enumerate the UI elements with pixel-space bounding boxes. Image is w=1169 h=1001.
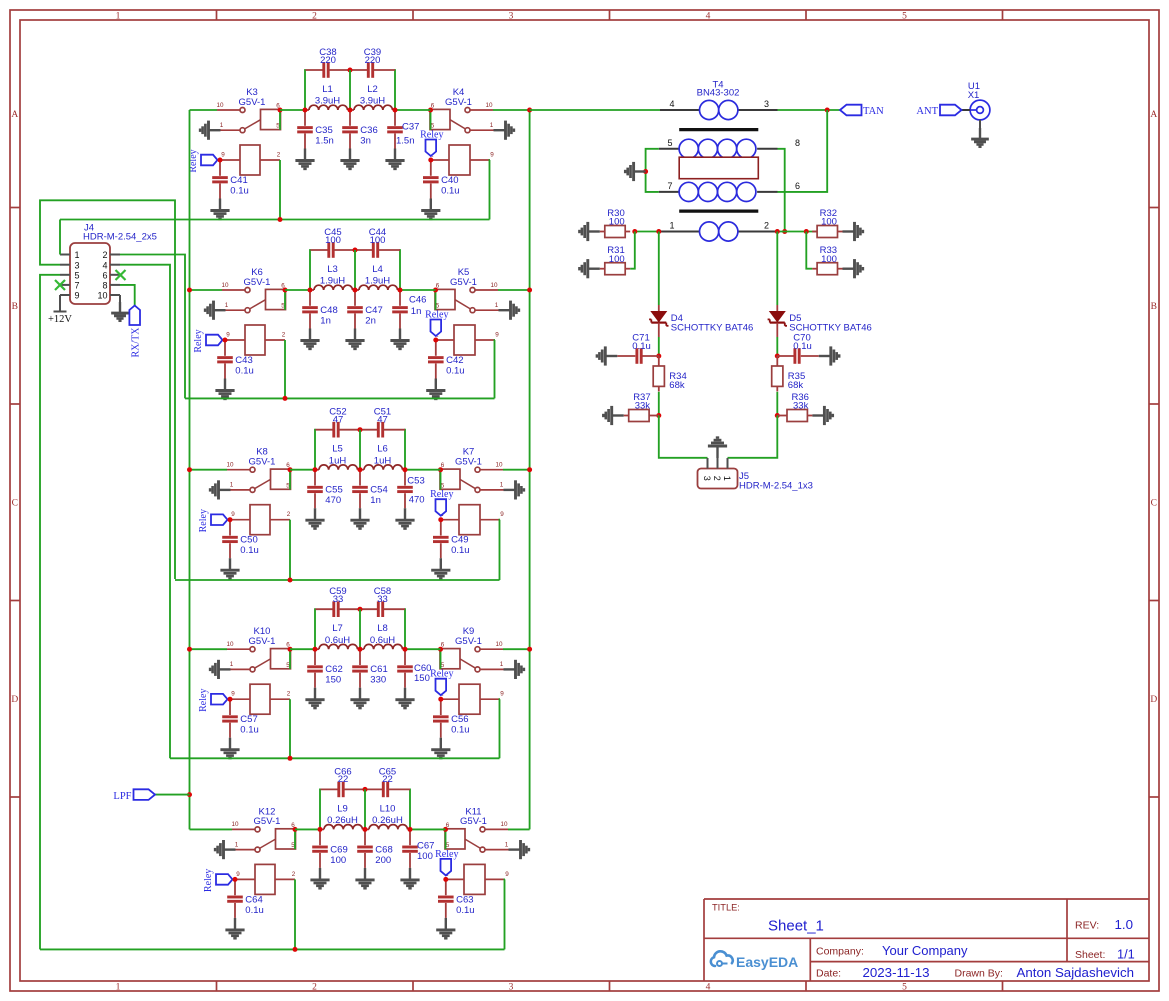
svg-text:1n: 1n bbox=[411, 306, 422, 317]
node R36 bbox=[775, 413, 780, 418]
svg-text:2: 2 bbox=[764, 221, 769, 231]
node R30/R31 bbox=[632, 229, 637, 234]
capacitor C48 bbox=[302, 290, 338, 329]
ground bbox=[220, 558, 239, 578]
svg-text:150: 150 bbox=[414, 673, 430, 684]
svg-text:10: 10 bbox=[97, 291, 107, 301]
capacitor C44 bbox=[355, 227, 400, 258]
ground at K11 pin 1 bbox=[509, 840, 529, 859]
svg-text:1.5n: 1.5n bbox=[396, 136, 415, 147]
wire right bus bbox=[529, 110, 531, 829]
svg-text:1: 1 bbox=[225, 302, 229, 309]
svg-text:Reley: Reley bbox=[430, 669, 453, 680]
node K7 pin 2 bbox=[438, 517, 443, 522]
wire bbox=[190, 828, 233, 830]
svg-text:9: 9 bbox=[231, 511, 235, 518]
wire J4 pin4 to row4 bbox=[120, 265, 170, 759]
svg-text:Sheet:: Sheet: bbox=[1075, 949, 1105, 961]
svg-text:0.1u: 0.1u bbox=[441, 186, 460, 197]
wire bbox=[635, 231, 659, 233]
wire bbox=[658, 392, 660, 416]
ground at R31 bbox=[579, 259, 599, 278]
capacitor C42 bbox=[428, 340, 465, 379]
node coil drive bbox=[288, 578, 293, 583]
capacitor C45 bbox=[311, 227, 356, 258]
svg-text:2: 2 bbox=[712, 476, 722, 481]
relay K11 bbox=[445, 806, 509, 894]
wire left bus bbox=[189, 110, 191, 829]
capacitor C50 bbox=[222, 520, 259, 559]
node K9 pin 2 bbox=[438, 697, 443, 702]
svg-text:10: 10 bbox=[221, 282, 229, 289]
svg-text:33k: 33k bbox=[793, 401, 809, 412]
node filter j1 bbox=[318, 827, 323, 832]
svg-text:4: 4 bbox=[669, 99, 674, 109]
svg-text:2: 2 bbox=[287, 691, 291, 698]
node filter j3 bbox=[408, 827, 413, 832]
svg-text:C69: C69 bbox=[330, 844, 347, 855]
inductor L5 bbox=[315, 444, 360, 470]
wire bbox=[489, 160, 492, 220]
svg-text:6: 6 bbox=[102, 270, 107, 280]
svg-text:22: 22 bbox=[382, 774, 393, 785]
svg-text:220: 220 bbox=[320, 55, 336, 66]
ground at R37 bbox=[603, 406, 623, 425]
wire bbox=[309, 250, 312, 290]
svg-text:L8: L8 bbox=[377, 623, 388, 634]
ground at R32 bbox=[843, 222, 863, 241]
inductor L9 bbox=[320, 803, 365, 829]
net flag TAN bbox=[840, 105, 884, 118]
ground bbox=[295, 149, 314, 169]
node K7 pin 6 bbox=[438, 467, 443, 472]
capacitor C59 bbox=[316, 586, 361, 617]
wire bbox=[499, 699, 502, 758]
wire bbox=[405, 648, 441, 650]
svg-text:0.6uH: 0.6uH bbox=[325, 635, 350, 646]
svg-text:0.26uH: 0.26uH bbox=[327, 815, 358, 826]
wire bbox=[155, 794, 190, 796]
wire bbox=[294, 830, 296, 849]
svg-text:1: 1 bbox=[116, 11, 121, 21]
svg-text:1.9uH: 1.9uH bbox=[320, 276, 345, 287]
wire bbox=[440, 650, 442, 669]
svg-text:TITLE:: TITLE: bbox=[712, 903, 740, 913]
node top caps C66/C65 bbox=[363, 787, 368, 792]
node top caps C52/C51 bbox=[358, 427, 363, 432]
node filter j2 bbox=[358, 647, 363, 652]
connector U1 bbox=[962, 81, 990, 120]
node K5 pin 6 bbox=[433, 288, 438, 293]
wire bbox=[190, 289, 223, 291]
svg-text:G5V-1: G5V-1 bbox=[244, 277, 271, 288]
ground bbox=[210, 199, 229, 219]
resistor R31 bbox=[600, 245, 630, 275]
node top caps C45/C44 bbox=[353, 248, 358, 253]
svg-text:Reley: Reley bbox=[198, 689, 209, 712]
node K10 pin 9 bbox=[228, 697, 233, 702]
ground bbox=[400, 868, 419, 888]
svg-text:G5V-1: G5V-1 bbox=[450, 277, 477, 288]
capacitor C69 bbox=[312, 829, 348, 868]
wire bbox=[354, 250, 356, 290]
svg-text:0.6uH: 0.6uH bbox=[370, 635, 395, 646]
svg-text:Date:: Date: bbox=[816, 968, 841, 980]
svg-text:L10: L10 bbox=[380, 803, 396, 814]
svg-text:1: 1 bbox=[669, 221, 674, 231]
svg-text:1: 1 bbox=[500, 661, 504, 668]
wire bbox=[284, 340, 286, 398]
wire bbox=[59, 295, 61, 312]
svg-text:3: 3 bbox=[509, 982, 514, 992]
svg-text:C48: C48 bbox=[320, 305, 337, 316]
svg-text:C63: C63 bbox=[456, 894, 473, 905]
net flag Reley bbox=[198, 509, 228, 532]
node filter j3 bbox=[393, 108, 398, 113]
net flag Reley bbox=[193, 329, 223, 352]
ground at K9 pin 1 bbox=[504, 660, 524, 679]
wire bbox=[658, 337, 660, 356]
svg-text:Anton Sajdashevich: Anton Sajdashevich bbox=[1017, 965, 1135, 980]
wire bbox=[504, 879, 507, 949]
node filter j2 bbox=[348, 108, 353, 113]
svg-text:4: 4 bbox=[102, 260, 107, 270]
inductor L7 bbox=[315, 623, 360, 649]
relay K6 bbox=[221, 267, 285, 355]
svg-text:9: 9 bbox=[231, 691, 235, 698]
svg-text:100: 100 bbox=[417, 851, 433, 862]
svg-text:HDR-M-2.54_1x3: HDR-M-2.54_1x3 bbox=[739, 481, 813, 492]
svg-text:1uH: 1uH bbox=[374, 455, 392, 466]
capacitor C64 bbox=[227, 879, 264, 918]
node TAN bbox=[825, 108, 830, 113]
wire bbox=[295, 828, 320, 830]
node right bus top bbox=[527, 108, 532, 113]
ground at K3 pin 1 bbox=[200, 121, 220, 140]
svg-text:C55: C55 bbox=[325, 485, 342, 496]
capacitor C54 bbox=[352, 470, 388, 509]
capacitor C56 bbox=[433, 699, 470, 738]
wire bbox=[508, 828, 530, 830]
wire row bottom bbox=[175, 579, 500, 581]
svg-text:7: 7 bbox=[75, 281, 80, 291]
svg-text:2: 2 bbox=[277, 152, 281, 159]
svg-text:1: 1 bbox=[505, 841, 509, 848]
svg-text:+12V: +12V bbox=[48, 314, 72, 325]
inductor L2 bbox=[350, 84, 395, 110]
wire bbox=[364, 789, 366, 829]
svg-text:C68: C68 bbox=[375, 844, 392, 855]
inductor L10 bbox=[365, 803, 410, 829]
wire bbox=[979, 120, 981, 128]
capacitor C38 bbox=[306, 47, 351, 78]
wire T4 pin3 to TAN bbox=[778, 109, 841, 111]
node D4 branch bbox=[656, 229, 661, 234]
node T4 56 gnd bbox=[643, 169, 648, 174]
capacitor C36 bbox=[342, 110, 378, 149]
svg-text:33: 33 bbox=[333, 594, 344, 605]
svg-text:C: C bbox=[12, 499, 18, 509]
node filter j1 bbox=[303, 108, 308, 113]
svg-text:A: A bbox=[1150, 110, 1157, 120]
node K8 pin 6 bbox=[288, 467, 293, 472]
capacitor C62 bbox=[307, 649, 343, 688]
ground at K4 pin 1 bbox=[494, 121, 514, 140]
svg-text:68k: 68k bbox=[669, 380, 685, 391]
svg-text:3n: 3n bbox=[360, 136, 371, 147]
ground bbox=[305, 688, 324, 708]
ground at C70 bbox=[819, 346, 839, 365]
net flag Reley bbox=[425, 310, 448, 337]
svg-text:3: 3 bbox=[764, 99, 769, 109]
node pin8 join bbox=[782, 229, 787, 234]
capacitor C65 bbox=[365, 766, 410, 797]
wire bbox=[498, 289, 530, 291]
inductor L1 bbox=[305, 84, 350, 110]
wire bbox=[410, 828, 446, 830]
inductor L8 bbox=[360, 623, 405, 649]
node LPF bbox=[187, 792, 192, 797]
ground bbox=[220, 738, 239, 758]
wire bbox=[395, 109, 431, 111]
svg-text:470: 470 bbox=[325, 495, 341, 506]
svg-text:33: 33 bbox=[377, 594, 388, 605]
svg-text:0.1u: 0.1u bbox=[235, 366, 254, 377]
wire J4 pin2 to row2 bbox=[120, 255, 185, 399]
resistor R37 bbox=[624, 392, 659, 422]
node filter j3 bbox=[398, 288, 403, 293]
svg-text:2023-11-13: 2023-11-13 bbox=[863, 965, 930, 980]
node coil drive bbox=[283, 396, 288, 401]
ground at K12 pin 1 bbox=[215, 840, 235, 859]
capacitor C66 bbox=[321, 766, 366, 797]
wire bbox=[290, 469, 315, 471]
svg-text:47: 47 bbox=[377, 415, 388, 426]
wire bbox=[494, 340, 497, 398]
svg-text:7: 7 bbox=[667, 181, 672, 191]
wire R33 up bbox=[806, 232, 812, 269]
ground bbox=[355, 868, 374, 888]
capacitor C47 bbox=[347, 290, 383, 329]
svg-text:C35: C35 bbox=[315, 125, 332, 136]
svg-text:EasyEDA: EasyEDA bbox=[736, 954, 798, 970]
svg-text:LPF: LPF bbox=[113, 791, 131, 802]
node K12 pin 9 bbox=[233, 877, 238, 882]
node right bus bbox=[527, 467, 532, 472]
svg-text:6: 6 bbox=[795, 181, 800, 191]
svg-text:0.1u: 0.1u bbox=[240, 545, 258, 556]
ground bbox=[305, 508, 324, 528]
svg-text:47: 47 bbox=[333, 415, 344, 426]
wire bbox=[289, 470, 291, 489]
capacitor C68 bbox=[357, 829, 393, 868]
svg-text:L5: L5 bbox=[332, 444, 343, 455]
svg-text:2: 2 bbox=[292, 871, 296, 878]
wire J4 pin3 to row3 bbox=[40, 200, 175, 579]
ground at C71 bbox=[597, 346, 617, 365]
svg-text:G5V-1: G5V-1 bbox=[249, 457, 276, 468]
wire bbox=[190, 648, 228, 650]
capacitor C61 bbox=[352, 649, 388, 688]
ground at T4 5-7 bbox=[625, 162, 645, 181]
svg-text:0.1u: 0.1u bbox=[456, 905, 475, 916]
svg-text:100: 100 bbox=[325, 235, 341, 246]
svg-text:0.1u: 0.1u bbox=[446, 366, 465, 377]
capacitor C60 bbox=[397, 649, 431, 688]
svg-text:1.0: 1.0 bbox=[1115, 917, 1134, 932]
capacitor C43 bbox=[217, 340, 254, 379]
wire bbox=[499, 520, 502, 580]
diode D5 bbox=[768, 305, 872, 337]
svg-text:Reley: Reley bbox=[425, 310, 448, 321]
svg-text:1n: 1n bbox=[320, 316, 331, 327]
svg-text:C40: C40 bbox=[441, 175, 458, 186]
svg-text:100: 100 bbox=[821, 217, 837, 228]
svg-text:10: 10 bbox=[226, 462, 234, 469]
node filter j2 bbox=[358, 467, 363, 472]
wire bbox=[776, 337, 778, 356]
ground bbox=[426, 379, 445, 399]
svg-text:1: 1 bbox=[230, 661, 234, 668]
node C70 bbox=[775, 354, 780, 359]
node filter j3 bbox=[403, 647, 408, 652]
node coil drive bbox=[293, 947, 298, 952]
relay K12 bbox=[231, 806, 295, 894]
svg-text:0.1u: 0.1u bbox=[245, 905, 263, 916]
wire row bottom bbox=[40, 948, 505, 950]
ground bbox=[431, 738, 450, 758]
node R37 bbox=[656, 413, 661, 418]
svg-text:C62: C62 bbox=[325, 664, 342, 675]
ground at K6 pin 1 bbox=[205, 301, 225, 320]
svg-text:X1: X1 bbox=[968, 90, 980, 101]
svg-text:9: 9 bbox=[490, 152, 494, 159]
svg-text:220: 220 bbox=[365, 55, 381, 66]
ground at J5 pin 2 bbox=[708, 438, 727, 458]
svg-text:1uH: 1uH bbox=[329, 455, 347, 466]
ground at R30 bbox=[579, 222, 599, 241]
capacitor C41 bbox=[212, 160, 249, 199]
svg-text:2: 2 bbox=[312, 11, 317, 21]
node K5 pin 2 bbox=[433, 338, 438, 343]
wire bbox=[119, 295, 121, 302]
node K9 pin 6 bbox=[438, 647, 443, 652]
ground bbox=[395, 688, 414, 708]
svg-text:G5V-1: G5V-1 bbox=[455, 636, 482, 647]
svg-text:470: 470 bbox=[409, 495, 425, 506]
node filter j1 bbox=[313, 647, 318, 652]
svg-text:A: A bbox=[11, 110, 18, 120]
wire bbox=[777, 231, 817, 233]
svg-text:10: 10 bbox=[231, 821, 239, 828]
wire row bottom bbox=[60, 219, 490, 221]
svg-text:RX/TX: RX/TX bbox=[131, 327, 142, 358]
ground at K10 pin 1 bbox=[210, 660, 230, 679]
wire bbox=[359, 609, 361, 649]
capacitor C71 bbox=[617, 333, 659, 364]
svg-text:200: 200 bbox=[375, 855, 391, 866]
ground bbox=[310, 868, 329, 888]
net flag ANT bbox=[916, 105, 961, 118]
svg-text:5: 5 bbox=[902, 982, 907, 992]
svg-text:L1: L1 bbox=[322, 84, 333, 95]
svg-text:0.1u: 0.1u bbox=[230, 186, 249, 197]
transformer T4 bbox=[659, 80, 800, 242]
ground at J4 pin 10 bbox=[111, 302, 129, 321]
svg-text:2: 2 bbox=[312, 982, 317, 992]
svg-text:Reley: Reley bbox=[198, 509, 209, 532]
svg-text:5: 5 bbox=[75, 270, 80, 280]
svg-text:1: 1 bbox=[75, 250, 80, 260]
EasyEDA logo bbox=[711, 951, 798, 970]
net flag Reley bbox=[188, 149, 218, 172]
capacitor C57 bbox=[222, 699, 259, 738]
wire bbox=[294, 879, 296, 949]
svg-text:1: 1 bbox=[235, 841, 239, 848]
svg-text:3: 3 bbox=[75, 260, 80, 270]
node top caps C38/C39 bbox=[348, 68, 353, 73]
svg-text:C42: C42 bbox=[446, 355, 463, 366]
resistor R35 bbox=[772, 356, 806, 392]
capacitor C63 bbox=[438, 879, 475, 918]
ground bbox=[385, 149, 404, 169]
node top caps C59/C58 bbox=[358, 607, 363, 612]
svg-text:10: 10 bbox=[485, 102, 493, 109]
wire bbox=[314, 430, 317, 470]
svg-text:3: 3 bbox=[702, 476, 712, 481]
svg-text:10: 10 bbox=[495, 641, 503, 648]
svg-text:100: 100 bbox=[609, 217, 625, 228]
wire bbox=[435, 291, 437, 310]
inductor L6 bbox=[360, 444, 405, 470]
wire row bottom bbox=[185, 397, 495, 399]
svg-text:C54: C54 bbox=[370, 485, 387, 496]
svg-text:10: 10 bbox=[495, 462, 503, 469]
svg-text:Reley: Reley bbox=[203, 869, 214, 892]
svg-text:10: 10 bbox=[490, 282, 498, 289]
wire bbox=[400, 289, 436, 291]
diode D4 bbox=[649, 305, 753, 337]
connector J5 bbox=[698, 458, 813, 492]
wire bbox=[776, 232, 778, 306]
relay K9 bbox=[440, 626, 504, 714]
ground bbox=[345, 329, 364, 349]
wire bbox=[408, 789, 411, 829]
svg-text:TAN: TAN bbox=[863, 106, 884, 117]
wire bbox=[349, 70, 351, 110]
ground bbox=[390, 329, 409, 349]
svg-text:1: 1 bbox=[116, 982, 121, 992]
svg-text:C: C bbox=[1151, 499, 1157, 509]
node K6 pin 9 bbox=[223, 338, 228, 343]
node filter j1 bbox=[308, 288, 313, 293]
ground at R36 bbox=[812, 406, 832, 425]
svg-text:2n: 2n bbox=[365, 316, 376, 327]
node K11 pin 6 bbox=[443, 827, 448, 832]
svg-text:9: 9 bbox=[221, 152, 225, 159]
node K12 pin 6 bbox=[293, 827, 298, 832]
svg-text:9: 9 bbox=[226, 332, 230, 339]
svg-text:3.9uH: 3.9uH bbox=[315, 96, 340, 107]
ground at K7 pin 1 bbox=[504, 480, 524, 499]
wire bbox=[359, 430, 361, 470]
wire D5 to J5 bbox=[728, 416, 778, 458]
svg-text:BN43-302: BN43-302 bbox=[697, 87, 740, 98]
ground bbox=[421, 199, 440, 219]
svg-text:1: 1 bbox=[230, 482, 234, 489]
node K8 pin 9 bbox=[228, 517, 233, 522]
node D5 branch bbox=[775, 229, 780, 234]
